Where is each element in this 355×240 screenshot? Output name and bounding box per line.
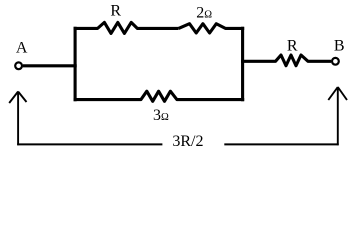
svg-text:R: R <box>110 3 121 20</box>
resistor R2 (top branch 2 ohm) with wire <box>179 24 245 33</box>
wire left vertical of box <box>74 27 77 101</box>
svg-text:R: R <box>287 37 298 54</box>
wire right vertical of box <box>241 27 244 101</box>
right dimension arrow <box>328 87 347 145</box>
svg-text:B: B <box>334 37 345 54</box>
svg-text:3R/2: 3R/2 <box>172 133 203 150</box>
svg-text:A: A <box>16 40 28 57</box>
left dimension arrow <box>9 92 26 146</box>
terminal A <box>15 62 22 69</box>
svg-text:2Ω: 2Ω <box>196 5 212 22</box>
resistor R1 (top branch R) with wire <box>74 22 179 33</box>
svg-text:3Ω: 3Ω <box>153 107 169 124</box>
terminal B <box>332 58 339 65</box>
resistor R3 (series R to B) with wire <box>241 55 331 66</box>
dimension line right segment <box>224 143 338 145</box>
resistor R4 (bottom branch 3 ohm) with wire <box>74 91 245 101</box>
wire A to box <box>23 64 77 67</box>
dimension line left segment <box>17 143 162 145</box>
